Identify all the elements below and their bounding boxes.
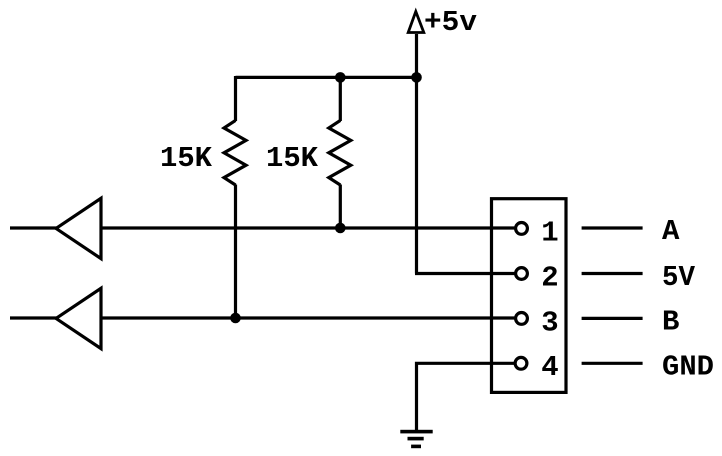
wire: pin 4 run to ground drop: [417, 363, 515, 431]
resistor R2 (15K right) zigzag: [329, 120, 351, 185]
wire: pull-up top rail: [236, 76, 417, 79]
pin 4 contact circle: [515, 357, 527, 369]
svg-text:A: A: [662, 215, 680, 248]
svg-text:GND: GND: [662, 351, 714, 384]
junction: R1 / line B: [230, 313, 241, 324]
power symbol +5V (open triangle): [408, 12, 424, 33]
wire: R1 top lead: [234, 76, 237, 121]
pin 3 contact circle: [516, 313, 528, 325]
svg-text:3: 3: [541, 306, 558, 339]
svg-text:2: 2: [541, 261, 558, 294]
wire: line A from buffer U1 to connector pin 1: [101, 226, 515, 229]
svg-text:5V: 5V: [662, 261, 696, 294]
svg-text:4: 4: [541, 351, 558, 384]
resistor R1 (15K left) zigzag: [224, 120, 246, 185]
pin 1 contact circle: [516, 223, 528, 235]
buffer U2 (line B receiver triangle): [56, 288, 101, 348]
wire: pin 4 stub to label GND: [582, 362, 643, 365]
wire: +5V vertical drop from power symbol to pin-2 row: [415, 34, 418, 274]
wire: pin 2 stub to label 5V: [582, 272, 643, 275]
junction: rail / R2 top: [335, 72, 346, 83]
svg-text:15K: 15K: [266, 142, 319, 175]
svg-text:+5v: +5v: [424, 6, 477, 39]
svg-text:B: B: [662, 306, 679, 339]
svg-text:1: 1: [541, 217, 558, 250]
wire: buffer U2 input stub: [10, 316, 57, 319]
junction: R2 / line A: [335, 223, 346, 234]
wire: R2 top lead: [339, 76, 342, 121]
ground symbol: [400, 430, 432, 434]
wire: R2 bottom lead down to line A: [339, 185, 342, 229]
wire: line B from buffer U2 to connector pin 3: [101, 316, 515, 319]
wire: +5V run to connector pin 2: [415, 272, 515, 275]
junction: rail / +5V line: [411, 72, 422, 83]
connector J1 body: [492, 199, 567, 393]
wire: pin 1 stub to label A: [582, 226, 643, 229]
svg-text:15K: 15K: [160, 142, 213, 175]
buffer U1 (line A receiver triangle): [56, 198, 101, 258]
wire: R1 bottom lead down to line B: [234, 185, 237, 319]
pin 2 contact circle: [516, 268, 528, 280]
wire: pin 3 stub to label B: [582, 317, 643, 320]
wire: buffer U1 input stub: [10, 226, 57, 229]
